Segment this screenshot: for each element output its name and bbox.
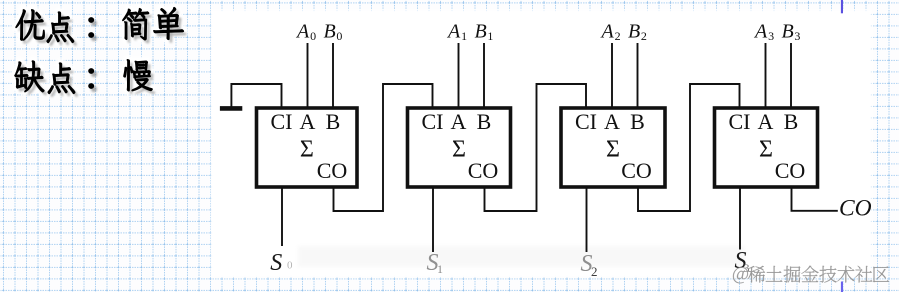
svg-text:0: 0	[336, 29, 342, 43]
svg-text:3: 3	[794, 29, 800, 43]
svg-text:CO: CO	[621, 158, 652, 183]
wire S1 output	[432, 187, 434, 252]
full adder U1 (sigma block)	[257, 108, 358, 187]
svg-text:1: 1	[461, 29, 467, 43]
wire S3 output	[739, 187, 741, 250]
full adder U3 (sigma block)	[561, 108, 665, 187]
svg-text:B: B	[630, 109, 645, 134]
ground (logic 0) bar	[220, 106, 242, 111]
svg-text:1: 1	[487, 29, 493, 43]
svg-text:B: B	[324, 20, 336, 42]
wire carry CO U2 to CI U3	[485, 84, 587, 211]
wire carry CO U3 to CI U4	[638, 84, 740, 211]
svg-text:CI: CI	[422, 109, 444, 134]
svg-text:CO: CO	[839, 196, 872, 222]
svg-text:CO: CO	[468, 158, 499, 183]
full adder U2 (sigma block)	[408, 108, 511, 187]
svg-text:B: B	[782, 20, 794, 42]
svg-text:S: S	[270, 250, 282, 276]
wire B1 input	[483, 43, 485, 108]
cursor artifact top	[841, 0, 843, 13]
title text 优点：简单 / 缺点：慢 shadow	[17, 10, 186, 97]
svg-text:2: 2	[591, 264, 598, 279]
svg-text:A: A	[451, 109, 467, 134]
wire S2 output	[586, 187, 588, 252]
svg-text:CI: CI	[575, 109, 597, 134]
faint erased watermark band	[298, 246, 745, 267]
title text 优点：简单 / 缺点：慢	[16, 9, 45, 40]
wire B3 input	[790, 43, 792, 108]
wire B0 input	[332, 43, 334, 108]
svg-text:A: A	[300, 109, 316, 134]
svg-text:B: B	[477, 109, 492, 134]
svg-text:CI: CI	[729, 109, 751, 134]
watermark @稀土掘金技术社区	[733, 267, 748, 283]
wire A1 input	[458, 43, 460, 108]
svg-text:1: 1	[437, 262, 443, 276]
wire CI U1 to logic-0	[231, 84, 281, 108]
svg-text:2: 2	[615, 29, 621, 43]
wire CO output U4	[792, 187, 838, 211]
svg-text:0: 0	[287, 260, 293, 272]
svg-text:CO: CO	[775, 158, 806, 183]
svg-text:Σ: Σ	[759, 137, 773, 163]
svg-text:B: B	[475, 20, 487, 42]
svg-text:3: 3	[768, 29, 774, 43]
svg-text:A: A	[600, 20, 615, 42]
svg-text:A: A	[295, 20, 310, 42]
svg-text:0: 0	[310, 29, 316, 43]
svg-text:CI: CI	[271, 109, 293, 134]
svg-text:B: B	[326, 109, 341, 134]
svg-text:A: A	[446, 20, 461, 42]
wire S0 output	[281, 187, 283, 246]
full adder U4 (sigma block)	[715, 108, 818, 187]
wire B2 input	[637, 43, 639, 108]
wire A2 input	[611, 43, 613, 108]
wire A3 input	[765, 43, 767, 108]
svg-text:A: A	[604, 109, 620, 134]
white canvas of pasted diagram	[211, 10, 872, 278]
title colons	[88, 17, 94, 23]
svg-text:A: A	[753, 20, 768, 42]
title text halo	[15, 7, 184, 94]
svg-text:B: B	[628, 20, 640, 42]
wire carry CO U1 to CI U2	[334, 84, 433, 211]
svg-text:Σ: Σ	[606, 137, 620, 163]
svg-text:Σ: Σ	[452, 137, 466, 163]
svg-text:B: B	[784, 109, 799, 134]
cursor artifact bottom	[841, 282, 843, 292]
wire A0 input	[307, 43, 309, 108]
svg-text:CO: CO	[317, 158, 348, 183]
svg-text:Σ: Σ	[300, 137, 314, 163]
svg-text:2: 2	[641, 29, 647, 43]
svg-text:A: A	[758, 109, 774, 134]
